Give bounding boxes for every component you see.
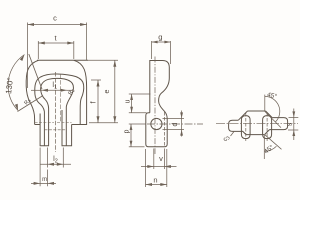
svg-text:m: m — [42, 177, 47, 183]
svg-text:d: d — [172, 122, 179, 126]
svg-text:n: n — [153, 176, 157, 185]
svg-text:f: f — [91, 101, 98, 103]
svg-text:e: e — [104, 89, 111, 93]
svg-text:u: u — [125, 99, 132, 103]
svg-text:c: c — [53, 14, 57, 23]
svg-text:p: p — [124, 129, 131, 133]
svg-text:g: g — [158, 33, 162, 42]
svg-text:s: s — [287, 122, 294, 126]
svg-text:v: v — [159, 154, 163, 163]
